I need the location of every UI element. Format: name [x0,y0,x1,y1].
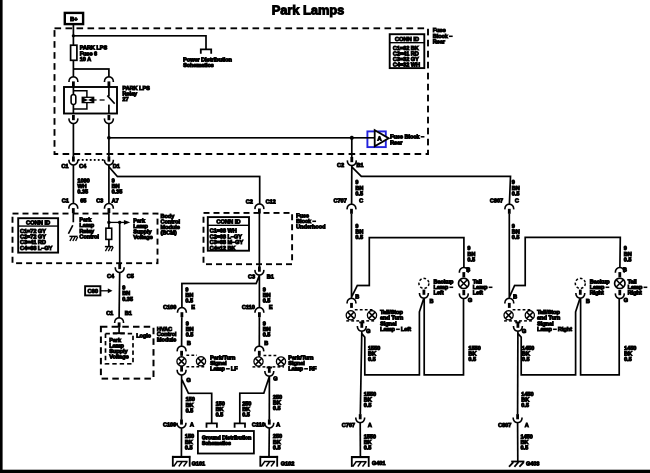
svg-text:9BN0.5: 9BN0.5 [624,246,632,263]
wire: 250 BK 0.5 RF ground lead [268,376,270,419]
connector B (park/turn lamp RF) [255,346,264,356]
conn id table (underhood) [208,217,249,252]
tail/stop lamp right dashed housing [504,310,533,321]
svg-text:CONN ID: CONN ID [216,220,240,226]
connector C1-B1 (HVAC) [115,318,124,328]
connector C3-B1 (underhood output) [255,267,264,276]
ground G101 [172,456,191,467]
svg-text:Tail/Stopand TurnSignalLamp –: Tail/Stopand TurnSignalLamp – Left [380,310,411,333]
connector G (tail/stop lamp left) [357,323,366,332]
park/turn lamp RF output T-bar [267,367,272,369]
backup lamp left (dashed bulb) [419,278,429,288]
svg-text:Park Lamps: Park Lamps [272,2,345,17]
wire: 9 BN 0.5 branch to C807 [352,167,511,204]
svg-text:Logic: Logic [136,333,151,339]
conn id table (fuse block rear) [390,34,425,68]
svg-text:Power DistributionSchematics: Power DistributionSchematics [183,57,232,69]
svg-text:1550BK0.5: 1550BK0.5 [364,434,376,451]
wire: 150 BK 0.5 branch to ground distribution [182,380,212,424]
svg-text:C1: C1 [106,311,113,317]
connector C807-C [505,204,514,214]
svg-text:Tail/Stopand TurnSignalLamp –: Tail/Stopand TurnSignalLamp – Right [537,310,572,333]
svg-text:C2: C2 [246,199,253,205]
svg-text:C: C [515,199,519,205]
tail/stop lamp left dashed housing [346,310,376,321]
wire: branch to C109 (LF) [182,275,260,307]
svg-text:B: B [586,299,590,305]
tail/stop lamp right bulb 1 [504,311,513,320]
wire: feed bus drop to C2 [351,138,353,157]
svg-text:C2: C2 [337,163,344,169]
BCM switch ground [69,236,77,241]
page bottom border bar [0,470,650,473]
svg-text:1550BK0.5: 1550BK0.5 [368,346,380,363]
wire: D1 feed to fuse block underhood [109,165,260,203]
wire: relay coil to C1 [72,124,74,157]
tail/stop lamp left output T-bar [359,321,364,323]
svg-text:TailLamp –Left: TailLamp –Left [473,279,492,296]
svg-text:1450BK0.5: 1450BK0.5 [624,346,636,363]
svg-text:150BK0.5: 150BK0.5 [185,434,194,451]
relay PARK LPS Relay 27 (box) [64,87,117,114]
wire: A7 into BCM [108,213,110,228]
dotted tie between C1/C4 and D1 [78,159,105,161]
svg-text:ParkLampRelayControl: ParkLampRelayControl [79,218,99,241]
ground G401 [351,456,370,467]
arrowhead: park lamp supply voltage [124,220,130,225]
ground distribution schematics box [198,431,254,454]
svg-text:BodyControlModule(BCM): BodyControlModule(BCM) [161,214,181,237]
svg-text:C5: C5 [127,274,134,280]
connector C110-A [265,419,274,428]
connector G (tail lamp right) [615,290,624,299]
junction dot on feed bus at C2 drop [350,136,354,140]
svg-text:1450BK0.5: 1450BK0.5 [521,434,533,451]
wire: into HVAC logic [118,327,120,333]
wire: 150 BK 0.5 to G101 [180,428,182,457]
off-page terminal: ground distribution (250) [235,423,245,427]
connector G (park/turn lamp LF) [177,366,186,375]
junction dot at BCM supply node [107,221,110,224]
svg-text:FuseBlock –Underhood: FuseBlock –Underhood [296,214,326,231]
svg-text:BackupLamp –Right: BackupLamp –Right [590,279,611,296]
triangle marker A [375,130,389,146]
wire: 9 BN 0.5 to LF lamp [181,317,183,346]
wire: B to LF bulb [181,356,183,357]
junction dot: relay output to feed bus [107,136,111,140]
relay pin connector (coil, top) [69,77,78,87]
svg-text:C: C [359,199,363,205]
connector B (backup lamp right) [576,290,585,299]
svg-text:9BN0.5: 9BN0.5 [186,321,194,338]
park/turn lamp RF dashed housing [253,356,285,367]
connector B (backup lamp left) [420,290,429,299]
fuse block - underhood dashed enclosure [204,213,293,264]
park/turn signal lamp RF bulb [254,357,263,366]
svg-text:B: B [466,268,470,274]
connector B (tail/stop lamp right) [505,298,514,308]
wire: 1450 BK 0.5 to C807-A [517,332,519,415]
park/turn lamp LF second element [196,357,205,366]
BCM park lamp relay control switch [68,213,73,234]
svg-text:E: E [269,305,273,311]
svg-text:9BN0.5: 9BN0.5 [185,287,193,304]
svg-text:B: B [187,341,191,347]
wire: 9 BN 0.5 branch to tail lamp right [510,237,621,296]
svg-text:B1: B1 [125,311,132,317]
svg-text:9BN0.35: 9BN0.35 [122,286,133,303]
HVAC input T-bar [113,332,125,334]
svg-text:9BN0.35: 9BN0.35 [112,178,123,195]
svg-text:A: A [368,423,372,429]
wire: relay switch output to D1 [108,124,110,157]
wire: 250 BK 0.5 branch to ground distribution [240,377,269,423]
connector C1-65 (BCM) [69,204,78,214]
wire: ground link backup left to tail lamp left [424,298,463,375]
svg-text:C3: C3 [96,199,103,205]
connector B (tail/stop lamp left) [347,298,356,308]
svg-text:G: G [522,329,526,335]
wire: ground link tail/stop right to backup lamp right [518,299,580,375]
BCM internal resistor [106,228,112,239]
svg-text:B: B [623,268,627,274]
connector C2-C12 (underhood) [255,204,264,214]
svg-text:C60: C60 [88,289,98,295]
svg-text:1550BK0.5: 1550BK0.5 [364,392,376,409]
connector C3-A7 (BCM) [105,204,114,214]
connector G (tail/stop lamp right) [514,323,523,332]
connector C807-A [513,414,522,423]
battery feed B+ terminal [65,13,83,24]
svg-text:C807: C807 [490,199,503,205]
svg-text:B+: B+ [70,17,78,23]
junction: power distribution tap [72,34,75,37]
in-line harness reference C60 [85,286,112,295]
connector D1 (fuse block rear) [105,156,114,165]
relay switch [107,87,114,114]
connector B (park/turn lamp LF) [177,346,186,356]
svg-text:A: A [190,422,194,428]
svg-text:FuseBlock –Rear: FuseBlock –Rear [433,28,453,45]
connector C109-A [177,419,186,428]
svg-text:A: A [525,423,529,429]
wire: 1550 BK 0.5 to G401 [359,423,361,457]
svg-text:B: B [513,294,517,300]
svg-text:C4: C4 [79,164,87,170]
park/turn signal lamp LF bulb [177,357,186,366]
svg-text:B1: B1 [356,163,363,169]
svg-text:250BK0.5: 250BK0.5 [273,434,282,451]
tail/stop lamp left bulb 2 [367,311,376,320]
svg-text:G: G [186,378,190,384]
svg-text:9BN0.5: 9BN0.5 [263,287,271,304]
connector B (tail lamp left) [459,268,468,278]
body control module dashed enclosure [13,214,158,264]
off-page terminal: ground distribution (150) [207,423,217,427]
svg-text:PARK LPSFuse 610 A: PARK LPSFuse 610 A [80,46,108,63]
tail lamp right bulb [615,278,625,288]
backup lamp right (dashed bulb) [575,278,585,288]
svg-text:C807: C807 [498,423,511,429]
tail/stop lamp right bulb 2 [525,311,534,320]
svg-text:G401: G401 [372,461,385,467]
connector C707-A [356,414,365,423]
connector C707-C [347,204,356,214]
svg-text:D1: D1 [113,164,120,170]
wire: LF bulb to G [181,365,183,368]
wire: feed bus inside fuse block rear [109,137,375,139]
off-page terminal: power distribution [201,49,211,53]
wire: 150 BK 0.5 LF ground lead [181,375,183,419]
svg-text:9BN0.5: 9BN0.5 [263,321,271,338]
wire: fuse split to relay switch pin [73,69,109,76]
svg-text:ParkLampSupplyVoltage: ParkLampSupplyVoltage [109,338,128,361]
svg-text:ParkLampSupplyVoltage: ParkLampSupplyVoltage [133,218,152,241]
svg-text:E: E [191,305,195,311]
svg-text:G: G [366,329,370,335]
svg-text:A: A [276,422,280,428]
wire: fuse to relay coil pin [72,60,74,76]
svg-text:9BN0.5: 9BN0.5 [355,224,363,241]
svg-text:A7: A7 [112,199,119,205]
svg-text:HVACControlModule: HVACControlModule [157,327,177,344]
BCM resistor ground [105,247,113,252]
svg-text:G: G [273,377,277,383]
wire: 9 BN 0.5 branch to tail lamp left [352,238,464,297]
svg-text:C110: C110 [252,422,265,428]
svg-text:CONN ID: CONN ID [26,220,50,226]
svg-text:65: 65 [80,199,86,205]
svg-text:C707: C707 [342,423,355,429]
svg-text:C109: C109 [163,305,176,311]
svg-text:9BN0.5: 9BN0.5 [467,246,475,263]
wire: B to RF bulb [258,356,260,357]
svg-text:BackupLamp –Left: BackupLamp –Left [434,279,455,296]
relay coil pin wire [72,87,74,114]
svg-text:B: B [355,294,359,300]
wire: 1450 BK 0.5 to G403 [517,423,519,461]
svg-text:1550BK0.5: 1550BK0.5 [468,346,480,363]
tail lamp left bulb [459,278,469,288]
svg-text:B: B [430,299,434,305]
svg-text:G102: G102 [281,462,294,468]
connector B (tail lamp right) [615,268,624,278]
wire: 1080 WH 0.35 to BCM C1-65 [72,165,74,203]
fuse block - rear output symbol (blue box) [367,131,385,147]
park/turn lamp RF second element [276,357,285,366]
wire: 9 BN 0.5 C2 to C707 [351,165,353,204]
fuse block - rear dashed enclosure [55,28,429,154]
page left border bar [0,0,3,473]
svg-text:9BN0.5: 9BN0.5 [355,180,363,197]
svg-text:C707: C707 [334,199,347,205]
svg-text:Park/TurnSignalLamp – LF: Park/TurnSignalLamp – LF [210,355,238,372]
svg-text:CONN ID: CONN ID [395,37,419,43]
relay coil element [71,95,76,105]
svg-text:G403: G403 [526,461,539,467]
wire: 250 BK 0.5 to G102 [268,428,270,457]
relay pin connector (coil, bottom) [69,115,78,124]
wire: to supply voltage arrow [109,221,124,223]
relay pin connector (switch, top) [105,77,114,87]
wire: through fuse block underhood [258,214,260,267]
svg-text:C110: C110 [242,305,255,311]
HVAC control module dashed enclosure [101,327,154,379]
tail/stop lamp right output T-bar [515,321,520,323]
wire: 9 BN 0.35 BCM to HVAC [118,273,121,318]
wire: ground link tail/stop left to backup lamp left [362,299,424,375]
connector G (park/turn lamp RF) [265,368,274,377]
connector C109-E [178,308,187,318]
wire: B+ to fuse [72,24,74,45]
junction dot at HVAC feed tap [118,221,121,224]
svg-text:C1=62 BKC2=41 RDC3=32 GYC4=32: C1=62 BKC2=41 RDC3=32 GYC4=32 WH [393,46,420,69]
svg-text:C109: C109 [163,422,176,428]
connector G (tail lamp left) [459,290,468,299]
wire: to power distribution schematics [73,36,206,50]
svg-text:G: G [624,298,628,304]
wire: resistor to ground [108,239,110,246]
svg-text:250BK0.5: 250BK0.5 [273,395,282,412]
svg-text:Park/TurnSignalLamp – RF: Park/TurnSignalLamp – RF [288,355,317,372]
svg-text:PARK LPSRelay27: PARK LPSRelay27 [122,86,150,103]
svg-text:C4: C4 [107,274,115,280]
svg-text:C1: C1 [61,164,68,170]
svg-text:B: B [264,341,268,347]
svg-text:9BN0.5: 9BN0.5 [512,224,520,241]
relay solenoid symbol [82,97,96,102]
svg-text:9BN0.5: 9BN0.5 [512,180,520,197]
tail/stop lamp left bulb 1 [346,311,355,320]
park/turn lamp LF dashed housing [186,355,205,367]
wire: 9 BN 0.5 to RF lamp [258,317,260,346]
svg-text:250BK0.5: 250BK0.5 [242,401,251,418]
wire: BCM feed down to C4 [119,222,121,264]
wire: 9 BN 0.5 to tail/stop lamp left [351,214,353,298]
ground G403 [509,462,524,467]
HVAC logic block dashed box [106,334,134,364]
svg-text:TailLamp –Right: TailLamp –Right [628,279,647,296]
relay actuator dashed link [100,99,105,101]
wire: 9 BN 0.35 to BCM C3-A7 [108,166,110,203]
svg-text:B1: B1 [267,274,274,280]
svg-text:C12: C12 [266,199,276,205]
ground G102 [260,456,279,467]
wire: ground link backup right to tail lamp right [581,298,620,375]
svg-text:150BK0.5: 150BK0.5 [186,397,195,414]
svg-text:C3: C3 [248,274,255,280]
wire: 9 BN 0.5 to tail/stop lamp right [508,214,510,298]
svg-text:C1: C1 [62,199,69,205]
connector C1/C4 (fuse block rear) [69,156,78,165]
connector C2/B1 (fuse block rear) [347,157,356,166]
svg-text:1080WH0.35: 1080WH0.35 [77,178,89,195]
svg-text:150BK0.5: 150BK0.5 [216,401,225,418]
connector C4/C5 (BCM output) [115,264,124,273]
wire: to C110 (RF) [258,275,260,307]
svg-text:1450BK0.5: 1450BK0.5 [521,392,533,409]
conn id table (BCM) [18,218,58,252]
svg-text:G: G [468,298,472,304]
svg-text:G101: G101 [192,462,205,468]
relay pin connector (switch, bottom) [105,115,114,124]
relay coil bracket [73,91,87,109]
connector C110-E [255,308,264,318]
wire: 1550 BK 0.5 to C707-A [360,332,362,415]
svg-text:Fuse Block –Rear: Fuse Block –Rear [390,135,424,147]
fuse: PARK LPS Fuse 6 10A [71,45,77,60]
svg-text:1450BK0.5: 1450BK0.5 [522,346,534,363]
